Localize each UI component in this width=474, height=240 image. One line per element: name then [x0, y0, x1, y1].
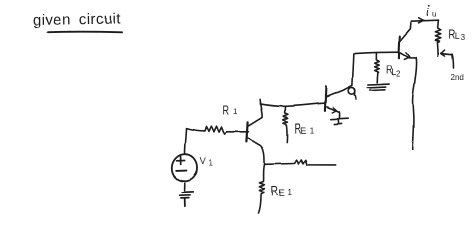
- label 2nd: [451, 73, 464, 82]
- svg-text:1: 1: [288, 188, 293, 197]
- svg-text:1: 1: [233, 107, 238, 116]
- resistor RE1 (upper, on collector rail): [283, 106, 288, 142]
- label RE1 (upper): [295, 121, 315, 138]
- svg-text:L: L: [455, 31, 460, 41]
- label iu: [427, 5, 437, 19]
- current arrow iu (top wire): [411, 18, 438, 23]
- resistor R1: [205, 126, 248, 133]
- svg-text:given circuit: given circuit: [33, 10, 122, 29]
- label R1: [223, 103, 239, 118]
- svg-text:2nd: 2nd: [451, 73, 464, 82]
- resistor RL3: [435, 21, 440, 56]
- svg-text:R: R: [223, 103, 230, 118]
- wire Q2 collector up to rail 2: [352, 54, 353, 86]
- ground below V1: [179, 183, 193, 206]
- svg-text:E: E: [279, 188, 285, 198]
- svg-text:R: R: [271, 183, 279, 199]
- svg-text:1: 1: [209, 159, 214, 168]
- label RL2: [386, 63, 401, 79]
- transistor Q1: [246, 99, 264, 164]
- wire V1 to R1: [185, 129, 205, 155]
- ground below RL2: [367, 84, 389, 90]
- ground (Q2 emitter): [331, 118, 348, 124]
- wire rail 2 (to Q3 base): [354, 52, 399, 53]
- label V1: [200, 156, 214, 168]
- wire Q3 emitter (long, down): [412, 58, 416, 149]
- resistor RE1 (lower): [259, 164, 265, 213]
- svg-text:u: u: [432, 10, 436, 19]
- svg-text:E: E: [301, 126, 307, 136]
- label RL3: [448, 26, 465, 42]
- svg-text:1: 1: [310, 127, 315, 136]
- label RE1 (lower): [271, 183, 293, 199]
- voltage source V1: [172, 154, 197, 181]
- transistor Q3: [399, 22, 416, 60]
- transistor Q2: [325, 85, 353, 118]
- svg-text:V: V: [200, 156, 206, 167]
- svg-text:2: 2: [396, 70, 401, 79]
- wire collector rail (Q1 collector to Q2 base): [260, 103, 325, 106]
- resistor (series, emitter branch): [295, 160, 337, 165]
- label Q1 (circle at collector node): [348, 87, 356, 99]
- wire emitter junction to series resistor: [265, 162, 295, 165]
- svg-text:3: 3: [461, 33, 466, 42]
- arrow to 2nd stage: [441, 50, 454, 69]
- svg-text:i: i: [427, 7, 430, 19]
- resistor RL2: [375, 53, 380, 83]
- title underline: [48, 31, 123, 34]
